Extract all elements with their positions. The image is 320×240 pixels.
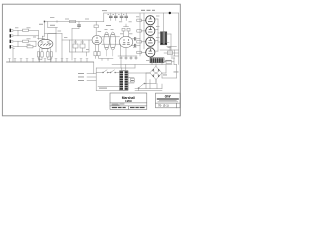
tube V3 phase inverter envelope <box>119 36 133 47</box>
text value marks left <box>39 10 111 26</box>
wire jack4 to R3 <box>13 46 27 48</box>
bias components <box>99 59 113 61</box>
svg-text:1959: 1959 <box>125 99 132 103</box>
wire tone stack top <box>62 39 92 41</box>
wire plate feed V1 <box>44 22 46 37</box>
text Marshall 1959 <box>122 96 135 103</box>
tube V2 electrodes <box>95 37 99 42</box>
power tube PT4 electrodes <box>148 49 152 53</box>
ground tick caps <box>9 58 89 60</box>
wire choke legs <box>152 63 162 65</box>
input jack J4 <box>10 45 13 48</box>
resistor R2 68k <box>23 40 29 42</box>
wire V1 left plate to coupling <box>42 35 44 37</box>
wire V1 cathode legs <box>40 49 51 63</box>
cap polarity marks <box>105 35 114 48</box>
capacitor C4 filter <box>109 16 112 17</box>
wire rail stub <box>48 22 58 28</box>
capacitor C2 tone <box>73 44 78 48</box>
coupling cap CC2 envelope <box>110 32 116 50</box>
text sheet number <box>158 104 169 108</box>
wire mains top <box>96 65 135 69</box>
text drawn-by row <box>112 104 125 106</box>
fuse F1 <box>130 79 134 82</box>
ground bus <box>7 61 94 63</box>
grid resistor box PT1 <box>137 19 142 21</box>
resistor R5 plate V2 <box>94 25 98 28</box>
title block Marshall box <box>110 93 147 109</box>
wire mixer vertical <box>55 28 57 52</box>
text rail label <box>50 16 54 19</box>
resistor PI plate A <box>122 28 125 31</box>
wire bridge connections <box>146 64 166 83</box>
wire T1 secondary right <box>128 73 150 83</box>
wire grid bus left <box>139 13 141 56</box>
wire pill drops <box>107 50 113 56</box>
capacitor C5 filter <box>114 16 117 17</box>
wire cathode pair joins <box>39 57 52 60</box>
wire filter cap stub 2 <box>115 13 117 16</box>
choke L1 <box>150 58 164 63</box>
power tube PT2 envelope <box>146 26 155 35</box>
wire V2 cathode legs <box>95 44 98 58</box>
wire under PI <box>118 55 137 57</box>
wire channel vertical <box>72 29 79 61</box>
wire jack2 <box>13 35 39 37</box>
switch S1 mains <box>103 70 107 73</box>
node filter junction <box>169 12 171 14</box>
coupling cap PI A <box>134 37 135 40</box>
tube V3 electrodes <box>123 39 130 44</box>
wire mains bottom <box>96 90 119 92</box>
wire voltage selector stubs <box>87 74 96 81</box>
standby switch S3 <box>139 84 145 89</box>
capacitor C6 filter <box>120 16 123 17</box>
wire R2 to node <box>29 40 37 42</box>
wire mixer horizontal <box>45 33 63 35</box>
V2 cathode resistor <box>94 52 97 56</box>
power tube PT4 envelope <box>146 48 155 57</box>
svg-text:70- (3-1): 70- (3-1) <box>158 104 169 108</box>
wire B+ rail upper <box>104 12 179 14</box>
wire mains live <box>96 72 119 74</box>
wire R3 to node <box>33 41 36 47</box>
resistor R3 68k <box>27 46 33 48</box>
node B+ rail start <box>44 21 45 23</box>
wire grid bus right <box>143 13 145 49</box>
logo bar <box>157 99 179 100</box>
wire grid feeds <box>141 20 146 52</box>
svg-text:GW: GW <box>165 95 172 99</box>
grid resistor box PT2 <box>137 30 142 32</box>
resistor R1 68k <box>23 29 29 31</box>
switch S2 mains <box>111 70 115 73</box>
coupling cap CC1 envelope <box>104 32 110 50</box>
tube V1 internal electrodes <box>40 42 51 45</box>
resistor R4 on rail <box>70 20 76 22</box>
V2 cathode cap <box>97 52 100 56</box>
cathode resistor/cap pair V1a <box>37 52 39 57</box>
wire junction verticals jacks <box>17 30 19 46</box>
grid resistor box PT4 <box>137 51 142 53</box>
wire filter cap stub 1 <box>110 13 112 16</box>
input jack J2 <box>10 34 13 37</box>
wire dropper stub 1 <box>121 13 123 21</box>
wire PSU top <box>112 64 172 66</box>
wire OT secondary <box>167 34 171 50</box>
wire tone branch <box>69 40 71 52</box>
tube V1 envelope <box>38 39 53 48</box>
wire OT centre tap <box>163 13 165 32</box>
text voltage selector labels <box>78 73 107 89</box>
wire V1 plate pins up <box>38 34 57 40</box>
capacitor C7 filter <box>125 16 128 17</box>
wire cap C1 stub <box>78 22 80 29</box>
power tube PT2 electrodes <box>148 28 152 32</box>
grid resistor box PT3 <box>137 41 142 43</box>
border frame <box>2 4 180 116</box>
coupling cap PI B <box>134 44 135 47</box>
wire V2 to CC1 lower <box>102 43 120 45</box>
resistor PI plate B <box>127 28 130 31</box>
wire tone vertical <box>61 34 63 63</box>
power tube PT3 envelope <box>146 37 155 46</box>
input jack J1 <box>10 29 13 32</box>
wire T1 primary top <box>122 65 126 71</box>
wire PI tail <box>120 44 122 56</box>
wire jack ground drop <box>13 48 15 62</box>
wire mains neutral <box>98 86 120 88</box>
power transformer T1 <box>120 71 128 90</box>
bias cap marks <box>120 57 137 59</box>
wire heater chain <box>149 24 152 48</box>
impedance selector box <box>168 51 173 55</box>
bridge rectifier D1-D4 <box>150 67 162 80</box>
wire tone stack bottom <box>70 40 90 56</box>
wire mains left vertical <box>95 68 97 91</box>
wire rail tick <box>56 21 58 23</box>
logo address lines <box>158 100 179 102</box>
wire feedback vertical <box>174 50 176 56</box>
text PSU values <box>163 60 179 75</box>
wire plates to OT <box>158 33 160 42</box>
wire ground bus drop <box>93 62 95 74</box>
wire jack1 to grid resistor <box>13 29 23 31</box>
text EL34 labels <box>141 10 155 11</box>
bias network ticks <box>121 56 136 60</box>
wire standby <box>135 73 162 91</box>
wire R1 to V1 grid <box>29 30 39 39</box>
wire rail step-up <box>103 13 105 22</box>
capacitor C1 dropper <box>78 25 81 26</box>
title block logo box <box>156 93 181 108</box>
wire tone stubs <box>76 40 83 52</box>
wire filter stubs down <box>111 18 116 21</box>
text bottom row cells <box>112 107 145 108</box>
power tube PT1 electrodes <box>148 17 152 21</box>
wire bias tap <box>120 60 122 68</box>
wire speaker network <box>160 47 179 57</box>
capacitor C3 tone <box>80 44 85 48</box>
wire dropper stub 2 <box>125 13 127 21</box>
power tube PT3 electrodes <box>148 39 152 43</box>
wire right edge drop <box>178 13 180 65</box>
wire jack3 to R2 <box>13 40 23 42</box>
logo GW <box>165 95 172 99</box>
output transformer T2 <box>160 32 166 45</box>
text plus marks <box>108 13 125 16</box>
wire V2 plate feed <box>95 22 97 26</box>
wire R5 to V2 <box>95 28 97 35</box>
text component value labels <box>15 16 175 61</box>
ground bus ticks <box>10 59 88 62</box>
input jack J3 <box>10 40 13 43</box>
wire V2 to CC1 upper <box>102 36 120 38</box>
wire V3 plate feeds <box>124 24 129 37</box>
wire HT fuse <box>162 59 177 79</box>
power tube PT1 envelope <box>146 16 155 25</box>
wire plate bus <box>155 19 158 51</box>
cathode resistor/cap pair V1b <box>47 52 49 57</box>
wire B+ rail lower <box>45 21 104 23</box>
wire PI outputs <box>126 39 140 56</box>
tube V2 envelope <box>92 35 102 44</box>
HT fuse box <box>166 60 172 63</box>
